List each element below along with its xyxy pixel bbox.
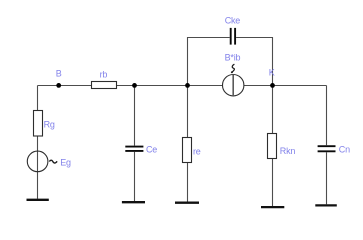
node B junction dot — [56, 83, 61, 88]
label pointer squiggle B*ib — [231, 64, 235, 73]
wire Cke loop left and top-left — [188, 38, 230, 86]
capacitor Ce plates — [125, 147, 143, 151]
svg-text:B: B — [56, 68, 62, 78]
voltage source Eg circle — [27, 151, 48, 172]
ground (Eg branch) — [27, 199, 49, 201]
node re junction dot — [185, 83, 190, 88]
svg-text:K: K — [269, 67, 275, 77]
label pointer squiggle Eg — [49, 160, 57, 163]
wire re branch — [187, 86, 189, 202]
wire Ce branch lower — [134, 152, 136, 201]
node Ce junction dot — [132, 83, 137, 88]
svg-text:Cke: Cke — [225, 15, 241, 25]
svg-text:B*ib: B*ib — [225, 53, 241, 63]
capacitor Cke plates — [231, 28, 235, 45]
ground (re branch) — [175, 202, 199, 204]
svg-text:Rkn: Rkn — [280, 146, 296, 156]
wire Cke top-right and right vertical — [236, 38, 272, 86]
wire Rkn branch — [272, 86, 274, 207]
wire main horizontal B row — [38, 85, 327, 87]
resistor Rkn — [268, 134, 277, 159]
wire left vertical Eg branch — [37, 86, 39, 199]
wire Cn branch upper — [326, 86, 328, 146]
wire Ce branch upper — [134, 86, 136, 146]
ground (Rkn branch) — [261, 206, 284, 208]
svg-text:re: re — [193, 147, 201, 157]
svg-text:Eg: Eg — [60, 158, 71, 168]
current source U1 bar — [232, 75, 234, 96]
node K junction dot — [270, 83, 275, 88]
svg-text:Rg: Rg — [44, 120, 55, 130]
resistor Rg — [34, 111, 43, 137]
svg-text:Ce: Ce — [146, 145, 157, 155]
resistor rb — [92, 82, 117, 89]
ground (Cn branch) — [315, 204, 337, 206]
resistor re — [183, 138, 192, 163]
current source U1 circle — [223, 75, 244, 96]
ground (Ce branch) — [122, 201, 145, 203]
wire Cn branch lower — [326, 152, 328, 204]
svg-text:Cn: Cn — [339, 145, 350, 155]
svg-text:rb: rb — [100, 69, 108, 79]
capacitor Cn plates — [318, 146, 336, 151]
